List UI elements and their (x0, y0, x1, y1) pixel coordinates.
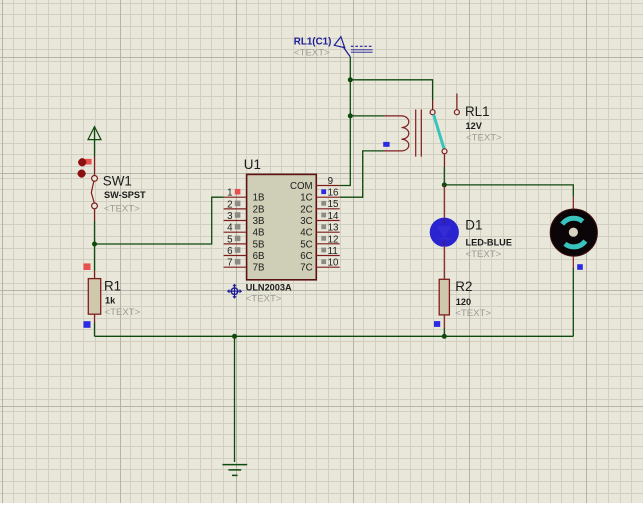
node junction to contact (348, 77, 353, 82)
svg-text:3C: 3C (300, 216, 312, 227)
svg-text:7B: 7B (253, 263, 265, 274)
label RL1(C1) (294, 37, 332, 48)
wire to U1 pin 1 (95, 197, 224, 244)
U1 pin 12 (5C) (300, 234, 339, 250)
svg-text:4: 4 (227, 223, 233, 234)
relay link flag RL1(C1) (334, 37, 372, 57)
wire R1 to bus (94, 323, 96, 337)
svg-text:D1: D1 (465, 217, 482, 232)
svg-text:<TEXT>: <TEXT> (105, 307, 141, 318)
svg-text:5: 5 (227, 234, 233, 245)
node bus/ground junction (232, 334, 237, 339)
svg-text:6C: 6C (300, 251, 312, 262)
R2 bottom state marker (434, 321, 440, 327)
label R2 (455, 279, 472, 294)
switch SW1 (91, 157, 97, 222)
svg-text:2B: 2B (253, 204, 265, 215)
wire junction to contact pole (350, 80, 432, 100)
label U1 (244, 157, 261, 172)
U1 pin 13 (4C) (300, 223, 339, 239)
svg-text:R1: R1 (104, 279, 121, 294)
U1 pin 5 (5B) (224, 234, 265, 250)
ground (222, 465, 247, 476)
U1 pin 10 (7C) (300, 258, 339, 274)
label RL1 (465, 104, 490, 119)
U1 pin 3 (3B) (224, 211, 265, 227)
relay RL1 coil (384, 110, 421, 157)
svg-text:<TEXT>: <TEXT> (455, 308, 491, 319)
node bus/R2 junction (442, 334, 447, 339)
wire contact throw to node (443, 167, 445, 185)
value 12V (466, 121, 483, 131)
wire motor to bus (572, 268, 574, 336)
U1 pin 9 (COM) (290, 176, 340, 192)
wire flag to junctions (340, 57, 351, 186)
svg-text:6B: 6B (253, 251, 265, 262)
svg-text:RL1(C1): RL1(C1) (294, 37, 332, 48)
label R1 (104, 279, 121, 294)
wire bottom bus (95, 335, 574, 337)
RL1(C1) text placeholder (294, 48, 330, 59)
svg-text:U1: U1 (244, 157, 261, 172)
R1 top state marker (84, 263, 91, 270)
D1 text placeholder (466, 249, 502, 260)
U1 pin 11 (6C) (300, 246, 339, 262)
svg-text:12V: 12V (466, 121, 483, 131)
U1 text placeholder (246, 294, 282, 305)
label D1 (465, 217, 482, 232)
svg-text:4B: 4B (253, 228, 265, 239)
RL1 text placeholder (466, 132, 502, 143)
power terminal arrow (88, 127, 101, 140)
svg-text:7C: 7C (300, 263, 312, 274)
wire coil bottom to U1 pin 16 (340, 151, 384, 197)
relay RL1 contact (430, 94, 459, 168)
label SW1 (103, 173, 132, 188)
svg-text:ULN2003A: ULN2003A (246, 282, 292, 292)
wire junction to coil top (350, 115, 384, 117)
value LED-BLUE (466, 237, 512, 247)
svg-text:7: 7 (227, 258, 232, 269)
node throw/LED/motor junction (442, 182, 447, 187)
U1 pin 1 (1B) (224, 188, 265, 204)
value SW-SPST (104, 190, 146, 200)
wire (94, 221, 96, 271)
switch SW1 actuator marks (78, 158, 92, 177)
svg-text:1B: 1B (253, 193, 265, 204)
svg-text:<TEXT>: <TEXT> (294, 48, 330, 59)
svg-text:11: 11 (328, 246, 338, 257)
svg-text:LED-BLUE: LED-BLUE (466, 237, 512, 247)
U1 pin 4 (4B) (224, 223, 265, 239)
svg-text:13: 13 (328, 223, 339, 234)
wire node to motor (444, 185, 573, 197)
svg-text:5C: 5C (300, 239, 312, 250)
svg-text:4C: 4C (300, 228, 312, 239)
SW1 text placeholder (104, 203, 140, 214)
svg-text:RL1: RL1 (465, 104, 490, 119)
value ULN2003A (246, 282, 292, 292)
resistor R2 (439, 279, 449, 328)
RL1 coil state marker (383, 142, 389, 147)
svg-text:1k: 1k (105, 296, 116, 306)
svg-text:5B: 5B (253, 239, 265, 250)
U1 pin 15 (2C) (300, 199, 339, 215)
svg-text:14: 14 (328, 211, 339, 222)
wire (94, 128, 96, 157)
R1 bottom state marker (84, 321, 91, 328)
svg-text:2C: 2C (300, 204, 312, 215)
svg-text:SW1: SW1 (103, 173, 132, 188)
svg-text:15: 15 (328, 199, 339, 210)
value 1k (105, 296, 116, 306)
svg-text:1: 1 (227, 188, 232, 199)
svg-text:10: 10 (328, 258, 339, 269)
R1 text placeholder (105, 307, 141, 318)
wire R2 to bus (443, 328, 445, 336)
R2 text placeholder (455, 308, 491, 319)
svg-text:9: 9 (328, 176, 333, 187)
svg-text:120: 120 (456, 297, 471, 307)
U1 pin 6 (6B) (224, 246, 265, 262)
svg-text:2: 2 (227, 199, 232, 210)
U1 pin 14 (3C) (300, 211, 339, 227)
svg-text:COM: COM (290, 181, 313, 192)
U1 origin crosshair (228, 284, 242, 298)
svg-text:3: 3 (227, 211, 233, 222)
svg-text:<TEXT>: <TEXT> (466, 132, 502, 143)
svg-text:<TEXT>: <TEXT> (104, 203, 140, 214)
node junction to coil (348, 113, 353, 118)
motor (550, 197, 597, 269)
U1 pin 16 (1C) (300, 188, 339, 204)
op-amp/driver IC U1 body (247, 174, 317, 279)
svg-text:<TEXT>: <TEXT> (466, 249, 502, 260)
node junction SW1/R1/U1 (92, 242, 97, 247)
resistor R1 (88, 271, 100, 323)
svg-text:3B: 3B (253, 216, 265, 227)
wire bus to ground (234, 336, 236, 462)
motor state marker (577, 264, 583, 270)
svg-text:6: 6 (227, 246, 233, 257)
svg-text:R2: R2 (455, 279, 472, 294)
U1 pin 2 (2B) (224, 199, 265, 215)
svg-text:1C: 1C (300, 193, 312, 204)
value 120 (456, 297, 471, 307)
svg-text:16: 16 (328, 188, 339, 199)
svg-text:12: 12 (328, 234, 339, 245)
LED D1 (430, 185, 459, 279)
svg-text:<TEXT>: <TEXT> (246, 294, 282, 305)
svg-text:SW-SPST: SW-SPST (104, 190, 146, 200)
U1 pin 7 (7B) (224, 258, 265, 274)
